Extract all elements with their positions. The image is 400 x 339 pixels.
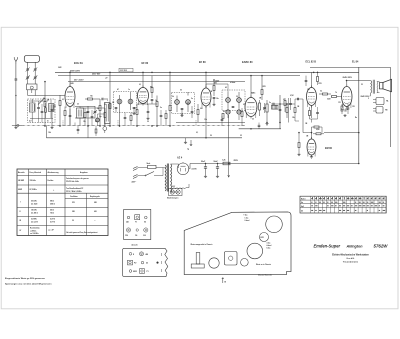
power transformer T5 heater winding xyxy=(171,184,189,189)
table T-right row lines xyxy=(300,199,386,201)
svg-text:70k: 70k xyxy=(90,96,93,98)
svg-text:Elektro-Mechanische Werkstatt: Elektro-Mechanische Werkstatten xyxy=(332,253,369,256)
IF can T3 shield (dashed) xyxy=(222,90,245,111)
svg-text:1,5k: 1,5k xyxy=(204,119,207,121)
svg-text:10n: 10n xyxy=(307,89,310,91)
svg-text:5762W: 5762W xyxy=(374,244,389,249)
resistor R15 xyxy=(319,93,331,95)
output transformer T4 secondary xyxy=(377,82,378,93)
chassis outline top view xyxy=(184,212,291,275)
svg-text:Uk: Uk xyxy=(301,210,303,212)
table T-right column lines xyxy=(310,196,312,213)
ground symbol V6 xyxy=(344,114,346,115)
svg-text:135: 135 xyxy=(352,106,355,108)
capacitor C20 cathode xyxy=(347,104,350,114)
ground symbol antenna bus xyxy=(15,126,17,127)
capacitor C28 xyxy=(124,113,127,127)
capacitor C25 xyxy=(289,98,292,110)
svg-text:ca 88 bis: ca 88 bis xyxy=(30,231,37,233)
svg-text:LW MW: LW MW xyxy=(18,180,24,182)
svg-text:25: 25 xyxy=(240,135,242,137)
connector socket BU1 xyxy=(373,98,389,105)
resistor R13 xyxy=(261,76,263,100)
svg-text:Treuenbrietzen: Treuenbrietzen xyxy=(343,260,359,263)
svg-text:Rundfunkkan.: Rundfunkkan. xyxy=(30,228,41,230)
ferrite loop antenna L1 xyxy=(24,55,39,66)
resistor R20 xyxy=(313,133,324,135)
svg-text:Ra: Ra xyxy=(355,117,357,119)
capacitor C5 xyxy=(51,104,54,126)
capacitor C34 below bus xyxy=(77,126,80,134)
resistor R7 xyxy=(156,96,158,127)
svg-text:6,77 M: 6,77 M xyxy=(50,221,56,223)
svg-text:EF 80: EF 80 xyxy=(199,61,206,64)
wire V1 cathode drop xyxy=(69,109,71,126)
ground arrow marker xyxy=(187,140,192,151)
svg-text:1 abc: 1 abc xyxy=(245,217,249,219)
svg-text:Angaben: Angaben xyxy=(80,171,88,174)
svg-text:1,2k: 1,2k xyxy=(222,160,226,162)
svg-text:125: 125 xyxy=(344,111,347,113)
svg-text:Drehko: Drehko xyxy=(48,180,54,182)
wire secondary to speaker xyxy=(377,81,380,83)
electrolytic capacitor C24 hatched xyxy=(272,105,279,109)
trimmer capacitor C3 xyxy=(33,66,37,72)
svg-text:7k: 7k xyxy=(335,92,337,94)
heater winding wire xyxy=(174,188,176,191)
node junction dot A xyxy=(15,95,16,96)
wire AGC rail xyxy=(68,81,245,83)
svg-text:Abstimmung: Abstimmung xyxy=(48,171,59,174)
resistor R32 below bus xyxy=(95,126,97,136)
wire right output vertical xyxy=(390,67,392,147)
resistor R12 xyxy=(222,114,224,119)
svg-text:ca. = ZF: ca. = ZF xyxy=(48,230,54,232)
svg-text:Oszillator: Oszillator xyxy=(70,195,78,198)
svg-text:200: 200 xyxy=(200,108,203,110)
component value labels scatter xyxy=(47,78,369,138)
svg-text:Rohre: Rohre xyxy=(301,199,306,201)
resistor R4 xyxy=(99,99,101,126)
svg-text:15k: 15k xyxy=(83,121,86,123)
ground symbol V2 cathode xyxy=(147,117,149,118)
connector strip PL2 row2 xyxy=(128,260,159,265)
resistor R27 xyxy=(130,113,132,127)
svg-text:Emden-Super: Emden-Super xyxy=(314,244,341,249)
connector panel PL1 row2 symbols xyxy=(126,228,147,232)
resistor R18 cathode xyxy=(341,104,343,114)
svg-text:ca. 100 MHz: ca. 100 MHz xyxy=(30,233,39,235)
svg-text:5 abc: 5 abc xyxy=(267,248,271,250)
rectifier tube V8 AZ4 xyxy=(177,162,189,174)
svg-text:L: L xyxy=(107,100,108,102)
chassis elco T-can side xyxy=(191,253,204,269)
svg-text:EL 84: EL 84 xyxy=(352,60,359,63)
oscillator coil L3 xyxy=(77,107,84,127)
svg-text:EF 80: EF 80 xyxy=(142,62,149,65)
power transformer T5 core xyxy=(166,164,168,192)
svg-text:1n: 1n xyxy=(128,89,130,91)
svg-text:200V 85V: 200V 85V xyxy=(92,74,101,76)
resistor R1 xyxy=(59,95,61,126)
svg-text:bis 1620: bis 1620 xyxy=(31,203,37,205)
svg-text:985 k: 985 k xyxy=(50,200,54,202)
wire V1 anode to rail xyxy=(69,72,71,86)
svg-text:30: 30 xyxy=(47,120,49,122)
label box rail voltages xyxy=(119,68,133,72)
svg-text:0,1: 0,1 xyxy=(196,132,198,134)
svg-text:755 k: 755 k xyxy=(50,212,54,214)
connector strip PL2 dash marks xyxy=(161,253,163,256)
svg-text:0,1: 0,1 xyxy=(62,99,64,101)
wire V2 anode xyxy=(142,72,144,87)
svg-text:0,3: 0,3 xyxy=(320,91,322,93)
capacitor C10 xyxy=(133,107,136,112)
svg-text:50: 50 xyxy=(180,90,182,92)
capacitor C17 xyxy=(271,103,277,106)
power transformer T5 primary xyxy=(163,165,166,191)
svg-text:5n: 5n xyxy=(191,98,193,100)
svg-text:170: 170 xyxy=(338,102,341,104)
resistor R9 xyxy=(169,72,171,126)
connector strip PL2 row1 xyxy=(129,252,148,256)
wire EM80 right down xyxy=(358,163,360,165)
chassis tube hole V4 xyxy=(209,258,219,268)
svg-text:2k: 2k xyxy=(172,96,174,98)
connector strip PL2 row3 xyxy=(129,269,148,274)
wire V3 anode xyxy=(205,72,207,88)
wire T1 to V2 grid xyxy=(130,92,132,95)
svg-text:50: 50 xyxy=(210,135,212,137)
svg-text:217V 213V: 217V 213V xyxy=(120,70,127,72)
capacitor C18 xyxy=(279,104,282,115)
node dot AF xyxy=(279,122,280,123)
wire B+ line PSU xyxy=(190,163,359,165)
resistor R31 xyxy=(84,108,86,126)
resistor R33 xyxy=(45,103,47,118)
svg-text:Spannungen usw. mit dem ab: Spannungen usw. mit dem abstell M gemess… xyxy=(5,282,52,285)
capacitor C13 xyxy=(181,108,184,113)
connector panel PL1 row1 symbols xyxy=(127,215,147,220)
capacitor C36 xyxy=(41,104,44,123)
dial lamps LA1 LA2 xyxy=(169,188,183,195)
wire V4 anode up xyxy=(250,76,252,98)
svg-text:25: 25 xyxy=(77,104,79,106)
wire +220V top rail xyxy=(55,71,359,73)
svg-text:53: 53 xyxy=(361,84,363,86)
svg-text:0,1: 0,1 xyxy=(283,99,285,101)
switch contact stub 1 xyxy=(62,121,64,126)
wire V5 cathode down xyxy=(311,106,313,119)
svg-text:3k: 3k xyxy=(97,108,99,110)
wire ground bus xyxy=(46,137,242,139)
svg-text:Sich.: Sich. xyxy=(147,163,152,165)
chassis tube hole V6 EL84 xyxy=(266,216,283,233)
loudspeaker LS xyxy=(380,79,392,91)
IF transformer T3 secondary coil xyxy=(237,92,242,108)
IF transformer T3 primary coil xyxy=(226,92,231,108)
wire grid1 V1 xyxy=(43,95,65,97)
table T-left row lines xyxy=(17,175,108,177)
svg-text:150 kHz: 150 kHz xyxy=(31,209,37,211)
capacitor C23 xyxy=(263,103,266,113)
svg-text:ECL 82 B: ECL 82 B xyxy=(306,60,317,63)
svg-text:2x300V: 2x300V xyxy=(192,169,197,171)
wire vertical x288 down xyxy=(287,98,289,123)
svg-text:E: E xyxy=(133,254,134,256)
svg-text:0,5: 0,5 xyxy=(243,104,245,106)
svg-text:30p: 30p xyxy=(99,116,102,118)
tuning capacitor C4 section b xyxy=(33,70,37,84)
svg-text:5: 5 xyxy=(368,98,369,100)
svg-text:255V: 255V xyxy=(234,160,239,162)
padder capacitor C6 xyxy=(87,106,90,118)
IF can T1 shield (dashed) xyxy=(114,92,137,113)
fuse F1 xyxy=(143,163,163,169)
IF transformer T1 secondary coil xyxy=(128,95,133,110)
wire V3 cathode down xyxy=(205,106,207,138)
resistor R26 xyxy=(104,108,106,126)
svg-text:Freq.-Bereich: Freq.-Bereich xyxy=(30,172,42,174)
wire V6 anode up xyxy=(346,81,348,87)
title line model name xyxy=(314,244,389,249)
wire stub x75 xyxy=(74,123,76,127)
tube V2 EF80 xyxy=(138,86,149,106)
svg-text:20V -18,5V: 20V -18,5V xyxy=(74,80,84,82)
ground symbol EM80 xyxy=(298,153,300,154)
resistor R23 xyxy=(284,98,286,112)
resistor R5 xyxy=(109,72,111,126)
resistor R14 xyxy=(286,104,288,118)
svg-text:E2: E2 xyxy=(144,221,146,223)
svg-text:T abc: T abc xyxy=(244,215,248,217)
AM bandfilter shield box (dashed) xyxy=(28,99,56,123)
wire top-right feed xyxy=(310,66,391,68)
bandswitch assembly SW1 xyxy=(105,103,111,124)
table T-right cell figures xyxy=(311,198,312,200)
svg-text:Allington: Allington xyxy=(346,245,364,249)
chassis tube hole V8 rectifier xyxy=(260,233,269,242)
resistor R21 xyxy=(298,133,300,153)
detector coil L5 xyxy=(237,108,241,114)
chassis marker B arrow xyxy=(222,278,227,284)
wire screen rail xyxy=(58,75,300,77)
connector strip PL2 outline xyxy=(123,248,168,276)
svg-text:Ug2: Ug2 xyxy=(301,206,304,208)
svg-text:204V 220V: 204V 220V xyxy=(361,95,371,98)
capacitor C11 xyxy=(151,99,154,104)
capacitor C8 xyxy=(102,98,108,101)
svg-text:5u: 5u xyxy=(269,102,271,104)
IF transformer T1 primary coil xyxy=(117,95,122,110)
tube V7 EM80 xyxy=(307,137,316,157)
wire EABC out to ECL grid xyxy=(287,103,295,105)
capacitor C33 xyxy=(91,110,94,126)
coupling capacitor C37 xyxy=(297,98,298,101)
resistor R8 xyxy=(136,104,138,126)
svg-text:Zwischenfrequenz der ganzen: Zwischenfrequenz der ganzen xyxy=(66,178,89,180)
ground symbol under C5 xyxy=(51,126,53,127)
wire vertical x280 xyxy=(279,95,281,129)
capacitor C12 xyxy=(147,104,150,117)
svg-text:620: 620 xyxy=(94,211,97,213)
wire ECL cathode join xyxy=(310,118,318,120)
wire linkage-to-bus drop xyxy=(45,125,47,137)
svg-text:1k: 1k xyxy=(155,100,157,102)
capacitor C29 xyxy=(160,110,163,126)
oscillator coil former L2 xyxy=(27,84,37,93)
wire PSU drop arrow xyxy=(228,164,230,178)
svg-text:204V 220V: 204V 220V xyxy=(343,76,353,79)
svg-text:EABC 80: EABC 80 xyxy=(242,61,253,64)
svg-text:2 abcd: 2 abcd xyxy=(245,220,250,222)
svg-text:6k8: 6k8 xyxy=(86,112,89,114)
svg-text:30: 30 xyxy=(147,121,149,123)
wire right vertical feed xyxy=(358,67,360,163)
svg-text:Skalenlampen: Skalenlampen xyxy=(167,197,178,199)
wire osc section xyxy=(75,106,95,108)
mains plug P xyxy=(133,167,143,179)
IF can T2 shield (dashed) xyxy=(172,93,195,114)
mains switch S2 xyxy=(143,172,163,177)
svg-text:G.m.b.H.: G.m.b.H. xyxy=(346,258,355,260)
wire HT secondary to rectifier xyxy=(171,163,179,165)
wire AF coupling xyxy=(277,103,287,105)
svg-text:985: 985 xyxy=(94,202,97,204)
resistor R29 xyxy=(241,108,243,126)
capacitor C19 xyxy=(305,76,308,86)
svg-text:UKW: UKW xyxy=(18,189,22,191)
wire detector out xyxy=(238,114,240,120)
filter resistor R22 xyxy=(222,160,230,165)
table T-left frequency data outer frame xyxy=(17,169,108,236)
svg-text:204V 220V: 204V 220V xyxy=(70,69,81,72)
wire antenna terminal segment xyxy=(12,124,22,126)
svg-text:EY81: EY81 xyxy=(261,237,265,239)
wire antenna down-lead xyxy=(15,80,17,126)
svg-text:ZF 10,7 MHz 5,5 MHz: ZF 10,7 MHz 5,5 MHz xyxy=(66,191,82,193)
capacitor C1 xyxy=(15,64,18,80)
capacitor C16 xyxy=(232,106,235,107)
svg-text:U2: U2 xyxy=(146,263,148,265)
trimmer capacitor C2 xyxy=(26,66,30,72)
volume potentiometer P1 xyxy=(263,100,268,123)
resistor R6 xyxy=(151,76,153,98)
switch S1 wave change xyxy=(38,98,45,105)
wire osc links xyxy=(80,107,105,109)
svg-text:25: 25 xyxy=(252,119,254,121)
svg-text:P1: P1 xyxy=(147,271,149,273)
resistor R10 xyxy=(213,80,215,96)
tube V3 EF80 xyxy=(201,86,211,108)
svg-text:bis 6,3 M: bis 6,3 M xyxy=(31,221,38,223)
wire from loop to mixer grid xyxy=(27,90,29,96)
output transformer T4 core xyxy=(372,80,374,94)
svg-text:2090 k: 2090 k xyxy=(50,203,55,205)
svg-text:30: 30 xyxy=(72,220,74,222)
svg-text:18k: 18k xyxy=(48,132,51,134)
resistor R2 xyxy=(44,82,46,126)
chassis tube hole V7 EM80 xyxy=(241,259,249,267)
wire bus AF bottom xyxy=(239,128,281,130)
capacitor C26 xyxy=(258,123,261,129)
resistor R16 xyxy=(331,96,339,98)
wire V3 plate to T3 xyxy=(205,84,207,88)
resistor R24 xyxy=(294,104,296,121)
capacitor C9 xyxy=(115,107,118,112)
svg-text:6,37 M: 6,37 M xyxy=(50,218,56,220)
wire rectifier output xyxy=(189,168,190,170)
svg-text:1g: 1g xyxy=(187,149,189,151)
resistor R17 xyxy=(317,72,319,85)
switch contact stub 2 xyxy=(117,120,119,126)
ground symbol P1 xyxy=(266,123,268,124)
svg-text:EM 80: EM 80 xyxy=(325,147,333,150)
wire junction dots xyxy=(44,72,359,164)
svg-text:12k: 12k xyxy=(292,117,295,119)
table T-right voltage chart frame xyxy=(300,196,386,213)
electrolytic C32 below bus xyxy=(103,124,107,134)
antenna ANT xyxy=(14,57,17,64)
svg-text:285: 285 xyxy=(72,211,75,213)
wire osc drop to bus xyxy=(87,125,89,137)
svg-text:Eingezeichnete Werte ge 20%: Eingezeichnete Werte ge 20% gemessen xyxy=(5,277,46,280)
detector coil L4 xyxy=(226,108,230,114)
connector socket BU2 xyxy=(373,107,388,114)
coil L7 with core xyxy=(30,99,36,123)
wave switch linkage main (dash-dot) xyxy=(22,124,245,126)
coil L8 with core xyxy=(49,100,55,119)
capacitor C15 xyxy=(191,106,194,118)
electrolytic capacitor C22 50uF xyxy=(214,161,220,178)
svg-text:515 kHz: 515 kHz xyxy=(31,200,37,202)
chassis electrolytic can (square) xyxy=(224,252,237,266)
svg-text:UKW: UKW xyxy=(133,271,137,273)
capacitor C35 xyxy=(37,101,40,123)
electrolytic capacitor C21 50uF xyxy=(201,161,207,178)
ground symbol PSU bus xyxy=(184,138,187,144)
capacitor C14 xyxy=(212,97,215,105)
svg-text:200: 200 xyxy=(143,235,146,237)
resistor R28 xyxy=(165,110,167,126)
svg-text:F1: F1 xyxy=(135,221,137,223)
svg-text:ECH 81: ECH 81 xyxy=(74,62,83,65)
tube V4 EABC80 xyxy=(245,96,257,119)
potentiometer P2 tone xyxy=(256,100,261,116)
svg-text:87,5 MHz: 87,5 MHz xyxy=(30,189,37,191)
svg-text:D9: D9 xyxy=(135,235,137,237)
tube V1 ECH81 xyxy=(65,85,75,109)
power transformer T5 secondary xyxy=(171,164,172,192)
coil L6 xyxy=(96,114,100,126)
svg-text:Bereich: Bereich xyxy=(18,172,25,174)
table T-right header figures xyxy=(313,197,385,199)
resistor R11 xyxy=(197,104,199,122)
wire bandfilter top link xyxy=(29,100,48,102)
svg-text:220V~: 220V~ xyxy=(132,182,137,184)
resistor R25 xyxy=(64,107,66,127)
svg-text:0,1: 0,1 xyxy=(139,84,141,86)
wire EM80 feed xyxy=(311,127,313,139)
tuning capacitor C4 section a xyxy=(26,70,30,84)
svg-text:5,9 MHz: 5,9 MHz xyxy=(31,218,37,220)
svg-text:6,3V: 6,3V xyxy=(172,186,175,188)
svg-text:bis 285 k: bis 285 k xyxy=(31,212,38,214)
svg-text:Ton-Rundfunkkanal ZF: Ton-Rundfunkkanal ZF xyxy=(66,188,83,190)
wire bus AF bottom2 xyxy=(176,122,245,124)
svg-text:10n: 10n xyxy=(216,98,219,100)
capacitor C30 xyxy=(221,116,224,126)
